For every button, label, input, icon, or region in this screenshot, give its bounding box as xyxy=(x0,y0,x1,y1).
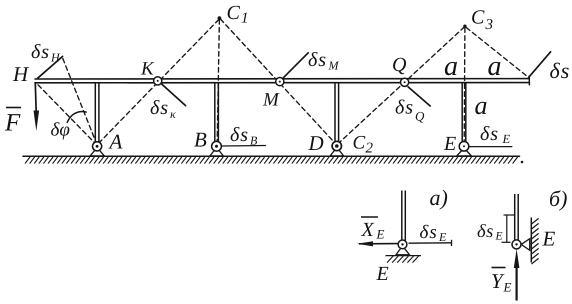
svg-text:M: M xyxy=(262,90,280,111)
ground hatching strokes xyxy=(25,157,523,164)
virtual displacement line ds at right beam end xyxy=(529,52,551,78)
force F arrow at H xyxy=(34,84,40,132)
svg-text:б): б) xyxy=(549,186,567,211)
svg-text:E: E xyxy=(495,231,503,243)
svg-text:a): a) xyxy=(430,185,448,210)
svg-text:δs: δs xyxy=(550,58,571,83)
svg-text:δs: δs xyxy=(230,124,249,146)
svg-text:a: a xyxy=(444,51,458,82)
dashed wire A through K to C1 xyxy=(99,19,219,143)
svg-text:δs: δs xyxy=(308,49,327,71)
svg-text:D: D xyxy=(308,131,324,155)
svg-text:C: C xyxy=(471,7,485,29)
svg-text:E: E xyxy=(376,227,385,242)
hinge M xyxy=(276,78,284,86)
subfigure b) post xyxy=(515,194,519,241)
subfigure a) ground line with hatching xyxy=(386,256,422,263)
svg-text:E: E xyxy=(443,133,456,155)
label ds_E main xyxy=(480,123,511,146)
virtual displacement line ds_Q xyxy=(408,87,430,106)
svg-text:δs: δs xyxy=(480,123,499,145)
svg-text:H: H xyxy=(50,51,61,65)
svg-text:δs: δs xyxy=(395,97,414,119)
subfigure b) wall line with hatching xyxy=(531,218,538,265)
support E pin and triangle xyxy=(457,142,472,156)
subfigure a) pin and triangle support xyxy=(396,240,410,255)
svg-text:E: E xyxy=(502,132,511,146)
svg-text:a: a xyxy=(475,91,488,120)
subfigure a) label X_E with bar xyxy=(361,217,385,242)
subfigure b) dimension tick for ds_E xyxy=(502,215,515,242)
svg-text:κ: κ xyxy=(170,107,176,121)
label F with bar xyxy=(4,108,21,137)
label ds_H xyxy=(31,41,61,65)
support A pin and triangle xyxy=(90,142,104,156)
node C1 point xyxy=(218,16,222,20)
node C3 point xyxy=(463,25,466,28)
svg-text:Q: Q xyxy=(415,109,425,124)
svg-text:δs: δs xyxy=(31,41,50,63)
svg-text:F: F xyxy=(4,110,21,137)
dashed wire C3 down to E xyxy=(463,28,466,141)
svg-text:E: E xyxy=(438,230,447,244)
svg-text:C: C xyxy=(353,133,366,154)
label ds_K xyxy=(150,97,176,121)
displacement baseline ds_B xyxy=(222,145,266,148)
svg-text:C: C xyxy=(227,2,241,24)
subfigure b) pin and wall triangle xyxy=(512,239,530,251)
svg-text:E: E xyxy=(376,263,389,285)
virtual displacement line ds_M xyxy=(283,53,308,78)
svg-text:B: B xyxy=(250,134,258,148)
svg-text:3: 3 xyxy=(485,17,494,33)
label C1 xyxy=(227,2,249,27)
displacement baseline ds_E xyxy=(470,146,512,148)
post over support D (double line) xyxy=(335,83,339,142)
support B pin and triangle xyxy=(210,141,223,155)
subfigure b) force Y_E arrow xyxy=(514,249,520,301)
virtual displacement line ds_K xyxy=(162,84,186,105)
subfigure a) force X_E arrow xyxy=(357,241,398,246)
subfigure b) label Y_E with bar xyxy=(491,268,512,295)
dashed wire ds_H tip to A xyxy=(63,59,96,143)
svg-text:1: 1 xyxy=(241,11,249,27)
ground line with hatching xyxy=(23,155,520,157)
subfigure b) label ds_E xyxy=(477,222,503,243)
svg-text:M: M xyxy=(328,59,340,73)
svg-text:δφ: δφ xyxy=(51,120,70,141)
post over support B (double line) xyxy=(215,83,219,143)
subfigure a) displacement line ds_E with end tick xyxy=(409,240,452,246)
svg-text:a: a xyxy=(488,51,502,82)
svg-text:δs: δs xyxy=(420,222,438,243)
svg-text:B: B xyxy=(194,128,207,152)
svg-text:δs: δs xyxy=(477,222,494,242)
svg-text:Q: Q xyxy=(392,54,407,76)
dashed wire C1 down to B xyxy=(217,20,219,142)
svg-text:2: 2 xyxy=(366,141,374,157)
hinge K xyxy=(154,77,162,85)
beam top chord H to right end (double line) xyxy=(35,76,529,85)
dashed wire C3 to right beam end xyxy=(466,28,528,78)
virtual displacement line ds_H xyxy=(38,56,63,78)
dashed wire D through Q to C3 xyxy=(338,27,464,144)
svg-text:E: E xyxy=(542,227,556,251)
angle arc delta-phi at A xyxy=(67,112,86,123)
label ds_M xyxy=(308,49,340,73)
label ds_Q xyxy=(395,97,425,124)
dashed wire H end to A xyxy=(38,85,95,143)
svg-text:E: E xyxy=(503,280,512,295)
post over support A (double line) xyxy=(95,83,99,143)
svg-text:H: H xyxy=(12,62,30,86)
dashed wire C1 through M to D xyxy=(220,19,336,145)
label C3 xyxy=(471,7,493,34)
label C2 xyxy=(353,133,374,157)
svg-text:X: X xyxy=(361,219,375,241)
svg-text:δs: δs xyxy=(150,97,169,119)
svg-text:A: A xyxy=(108,130,123,154)
hinge Q xyxy=(401,78,409,86)
post over support E (double line) xyxy=(462,83,466,142)
label ds_B xyxy=(230,124,258,148)
support D pin and triangle xyxy=(330,141,343,156)
subfigure a) post xyxy=(402,191,406,241)
subfigure a) label ds_E xyxy=(420,222,448,244)
svg-text:K: K xyxy=(140,59,155,80)
